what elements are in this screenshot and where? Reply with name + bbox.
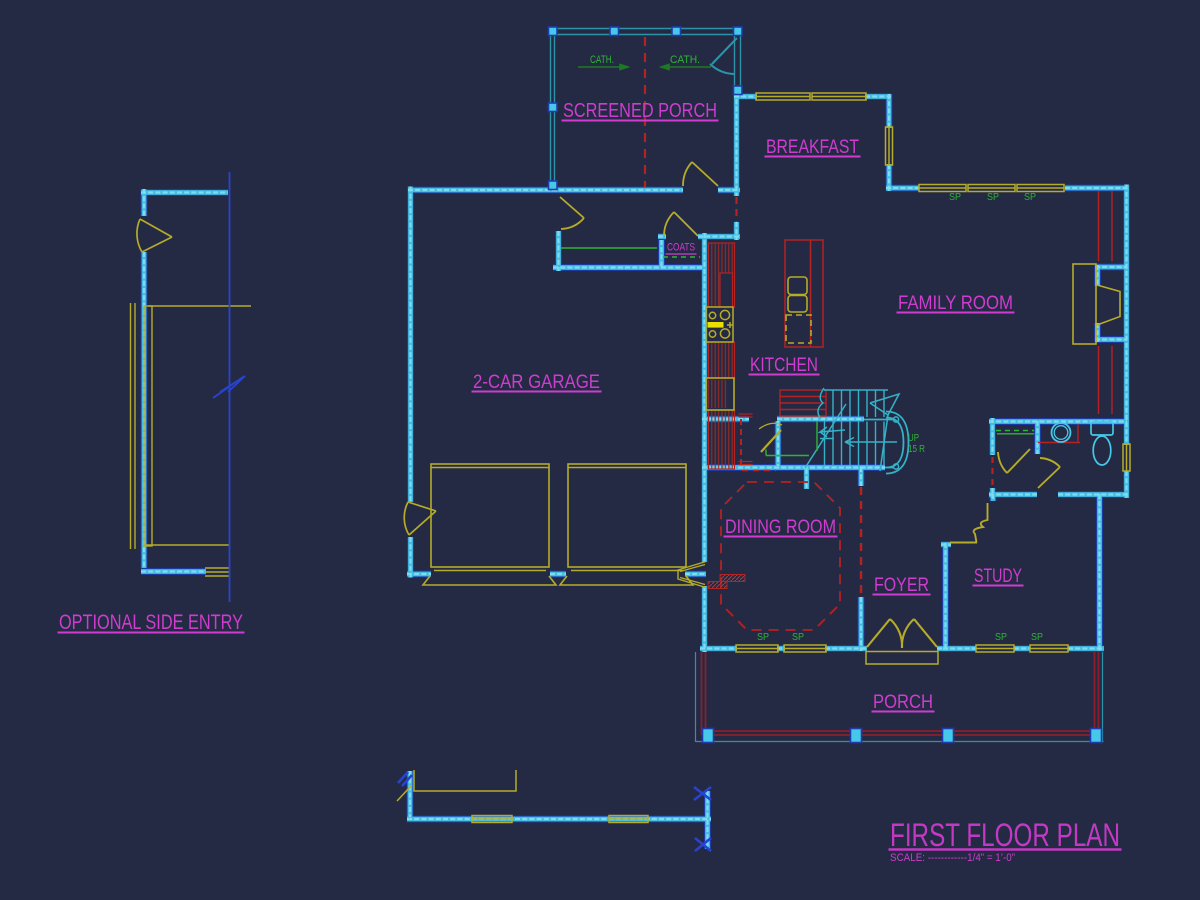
svg-text:PORCH: PORCH (873, 691, 933, 713)
island sink (788, 277, 807, 295)
toilet (1091, 422, 1113, 465)
svg-text:SP: SP (1031, 632, 1043, 643)
porch outer teal line (696, 652, 1104, 742)
side entry break line (229, 172, 231, 602)
dishwasher dashed (786, 315, 811, 343)
kitchen counter hatch (709, 243, 735, 307)
svg-text:FOYER: FOYER (874, 574, 929, 596)
svg-text:OPTIONAL SIDE ENTRY: OPTIONAL SIDE ENTRY (59, 611, 243, 634)
stairs rails thin extensions (864, 412, 909, 474)
stove (706, 307, 733, 342)
porch posts (549, 27, 558, 36)
door under stairs (761, 430, 781, 452)
stair treads upper flight (824, 390, 888, 417)
door coat closet (664, 212, 698, 236)
fragment break marks blue (398, 772, 711, 851)
dining fireplace hatch (720, 575, 745, 582)
front double door (867, 619, 937, 648)
kitchen island (785, 240, 823, 347)
svg-text:SP: SP (1024, 192, 1036, 203)
porch posts (703, 729, 714, 743)
svg-text:CATH.: CATH. (590, 54, 614, 66)
dining tray ceiling octagon (721, 482, 840, 630)
svg-text:SCALE: ------------1/4” = 1’-0: SCALE: ------------1/4” = 1’-0” (890, 852, 1015, 864)
svg-text:KITCHEN: KITCHEN (750, 354, 818, 376)
svg-text:CATH.: CATH. (670, 54, 700, 66)
cased opening family to hall dashed (991, 457, 993, 487)
pass-through dashed breakfast (735, 197, 737, 222)
svg-text:SP: SP (987, 192, 999, 203)
breakfast east window (886, 127, 893, 165)
svg-text:SP: SP (949, 192, 961, 203)
door side entry (137, 219, 172, 252)
garage door 1 (423, 464, 556, 585)
svg-text:SP: SP (995, 632, 1007, 643)
porch perimeter red (702, 652, 1099, 735)
svg-text:SP: SP (757, 632, 769, 643)
stair break squiggle (818, 388, 824, 419)
red counter ticks (739, 414, 753, 465)
fragment yellow wall (397, 770, 516, 801)
door porch to house (683, 162, 718, 186)
svg-text:STUDY: STUDY (974, 565, 1022, 587)
svg-text:SP: SP (792, 632, 804, 643)
porch ridge dashed line (644, 37, 646, 187)
svg-text:DINING ROOM: DINING ROOM (725, 516, 836, 538)
dining north small dashes (742, 470, 776, 472)
fireplace family room (1073, 264, 1096, 344)
door powder room (1038, 458, 1060, 488)
study angled entry (950, 503, 988, 543)
dining bay window (678, 562, 706, 588)
svg-text:UP: UP (908, 433, 919, 444)
study front windows (976, 645, 1014, 652)
screen door top-right (710, 38, 737, 74)
svg-text:FAMILY ROOM: FAMILY ROOM (898, 292, 1013, 314)
side entry garage door trim (131, 303, 252, 576)
exterior and interior hatched walls (141, 92, 1129, 849)
cath arrows (578, 64, 711, 69)
screened porch walls (550, 29, 741, 189)
breakfast bar counter (780, 390, 826, 416)
green shelving (561, 248, 1034, 456)
svg-text:FIRST FLOOR PLAN: FIRST FLOOR PLAN (890, 817, 1120, 853)
svg-text:BREAKFAST: BREAKFAST (766, 136, 859, 158)
fragment windows (472, 816, 512, 823)
powder east window (1123, 444, 1130, 471)
kitchen inset box (720, 273, 733, 307)
svg-text:SCREENED PORCH: SCREENED PORCH (563, 100, 717, 122)
svg-text:2-CAR GARAGE: 2-CAR GARAGE (473, 371, 600, 393)
chimney lines (1099, 191, 1113, 414)
powder counter (1038, 424, 1080, 443)
pantry dashed (740, 419, 742, 468)
pedestal sink (1052, 423, 1071, 442)
svg-text:15 R: 15 R (908, 444, 925, 455)
garage door 2 (560, 464, 693, 585)
door garage to mud hall (560, 197, 584, 229)
breakfast top windows (756, 93, 810, 100)
door hall closet (998, 449, 1030, 473)
dining front windows (736, 645, 778, 652)
stair treads lower flight (825, 422, 885, 466)
family top windows SP (919, 185, 966, 192)
oven cabinet (708, 380, 728, 408)
foyer dining cased opening dashed (860, 487, 862, 596)
door garage side (404, 502, 436, 535)
stair up arrows (805, 394, 899, 471)
svg-text:COATS: COATS (667, 242, 695, 254)
